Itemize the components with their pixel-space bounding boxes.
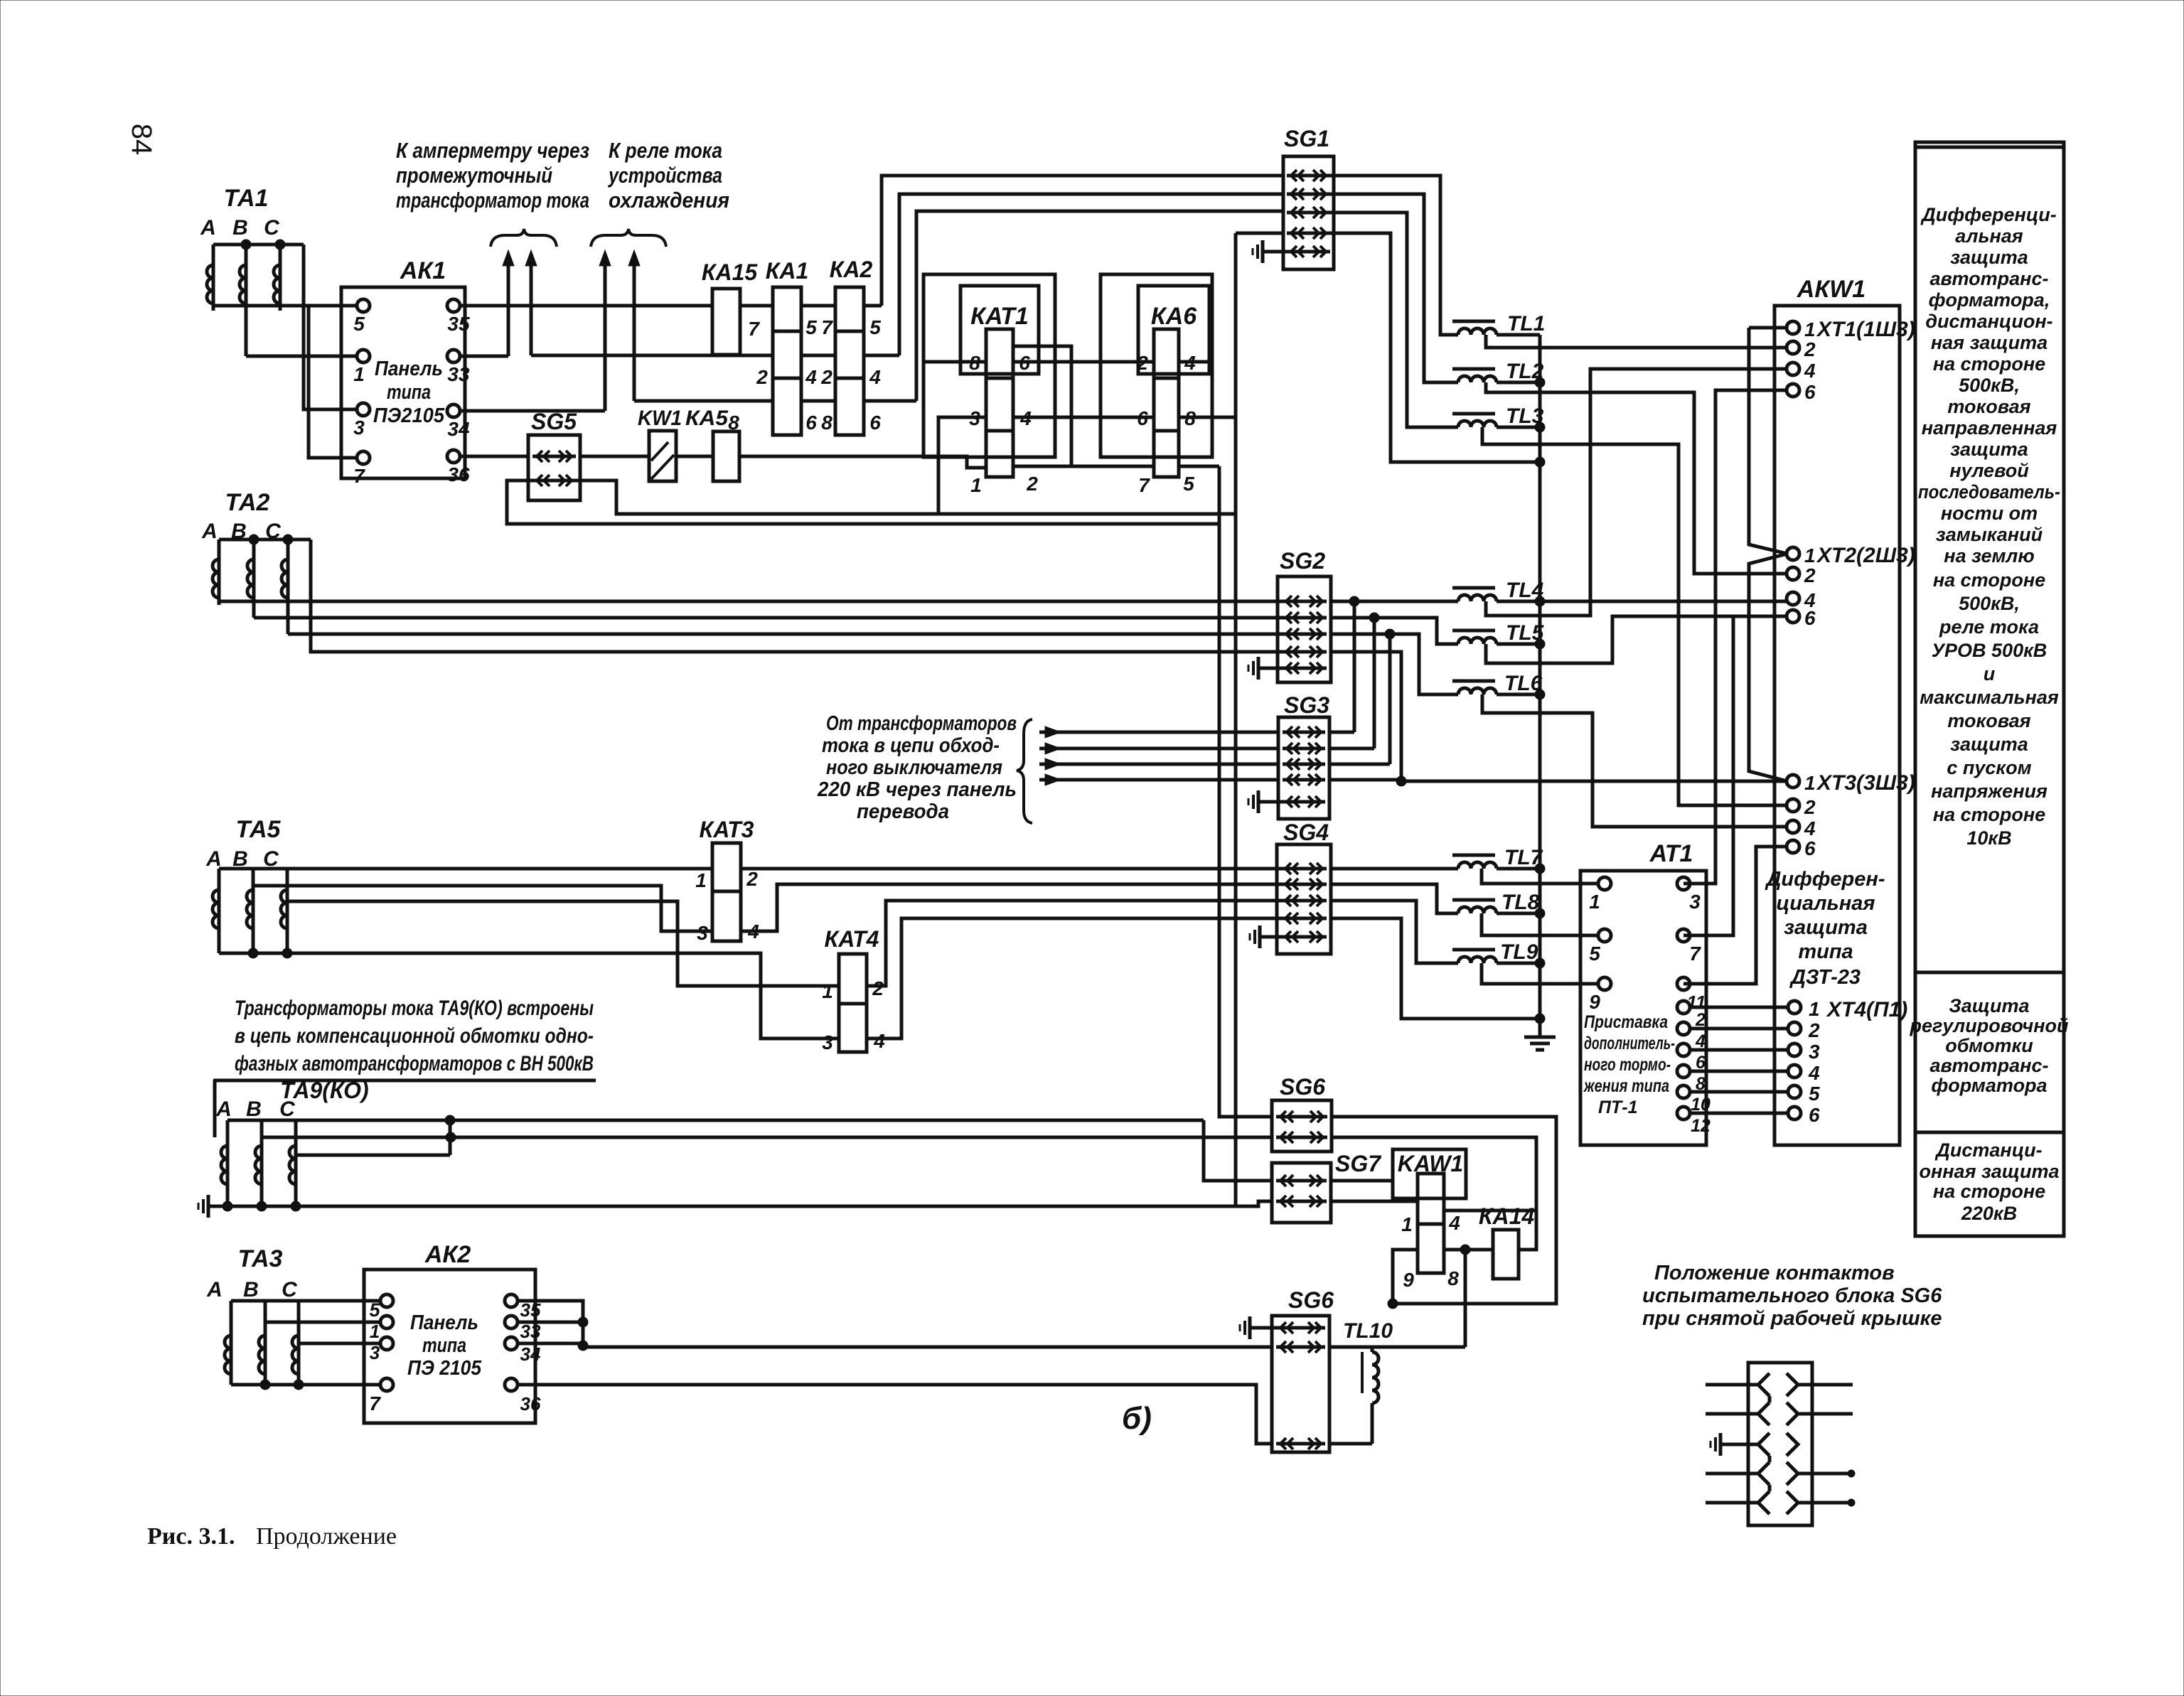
svg-text:4: 4 [1804,817,1816,839]
wire TA1-B to AK1:1 [246,355,356,358]
wire SG7 row1 out [1331,1179,1393,1183]
ground SG2 [1248,657,1283,680]
inset left link 3-4 [1768,1456,1772,1462]
svg-text:Рис. 3.1.: Рис. 3.1. [147,1523,235,1550]
svg-text:7: 7 [369,1392,381,1415]
wire TA1-A to AK1:5 [213,304,356,308]
svg-text:в цепь компенсационной обмотки: в цепь компенсационной обмотки одно- [235,1024,594,1048]
svg-text:А: А [215,1097,232,1121]
svg-text:С: С [264,216,280,240]
pin label KAT1 2 [1026,473,1038,495]
AT1 terminal 2 [1677,1001,1706,1030]
TA3 coil A [225,1301,231,1385]
inset right contact row4 [1787,1462,1798,1485]
svg-text:34: 34 [520,1343,541,1365]
brace ammeter [491,229,557,247]
svg-text:А: А [201,520,218,543]
svg-text:Дифферен-: Дифферен- [1764,868,1885,891]
svg-text:КА2: КА2 [830,257,873,282]
SG3 row5 [1283,796,1325,807]
svg-text:автотранс-: автотранс- [1930,1055,2049,1076]
svg-text:35: 35 [447,313,470,335]
wire AK2:36 long to SG6l row3 [518,1385,1272,1444]
transformer TL5 [1452,621,1545,645]
wire KA5 to KAT1:1 [739,456,986,468]
node TL9 common [1535,958,1545,968]
svg-text:тока в цепи обход-: тока в цепи обход- [822,734,1000,757]
TA2 coil C [282,540,288,634]
AT1 terminal 12 [1677,1107,1711,1136]
wire AT1:11 riser to XT3-6 [1683,847,1787,984]
relay KAT4 [825,926,879,1052]
svg-text:КА1: КА1 [766,258,809,284]
svg-text:2: 2 [1804,338,1816,360]
svg-text:500кВ,: 500кВ, [1959,593,2020,614]
wire SG1 row2 to TL2 [1328,194,1458,382]
AK2 terminal 34 [505,1337,541,1365]
svg-text:6: 6 [1137,407,1148,429]
svg-text:5: 5 [869,316,881,338]
svg-text:4: 4 [1448,1212,1460,1234]
wire V1 vertical [1219,466,1272,1117]
wire SG3 row1 out [1329,731,1354,734]
svg-text:ПЭ 2105: ПЭ 2105 [407,1357,482,1380]
TA2 coil A [213,540,219,605]
svg-text:форматора: форматора [1931,1075,2047,1096]
svg-text:3: 3 [353,417,365,439]
svg-text:КА5: КА5 [685,407,729,430]
wire V2 vertical [1234,233,1238,1206]
svg-text:6: 6 [869,412,881,434]
svg-text:циальная: циальная [1777,892,1875,915]
svg-text:4: 4 [869,366,881,388]
wire AK2:33 link [518,1321,583,1324]
relay KAT1 element [986,329,1013,477]
svg-text:КА6: КА6 [1151,303,1197,330]
wire SG4 row3 to TL9 [1331,901,1458,963]
svg-text:реле тока: реле тока [1939,616,2039,638]
AK2 terminal 33 [505,1316,541,1342]
inset right contact row3 [1787,1433,1798,1456]
SG2 row5 [1282,662,1327,674]
svg-text:6: 6 [1804,607,1816,629]
svg-text:токовая: токовая [1947,710,2030,731]
svg-text:SG6: SG6 [1280,1074,1325,1100]
terminal XT2-2 [1787,564,1816,586]
AK1 terminal 7 [353,451,370,487]
relay KAT1 label frame [960,286,1039,374]
KA6 pin 2 [1136,352,1148,374]
svg-text:4: 4 [805,366,817,388]
pin labels bottom row [728,412,881,434]
annotation SG6 position text [1642,1262,1942,1330]
transformer TL2 [1452,360,1544,383]
wire TA9-C out [296,1154,450,1157]
wire SG5 row2 left run [507,481,1219,524]
node SG2 row2 junction [1369,613,1379,623]
svg-text:устройства: устройства [607,163,722,188]
wire KAT4:2 to SG4 row3 [867,901,1284,986]
current transformer TA1 label [200,185,280,240]
wire AK1:35 row [461,304,882,308]
relay KAW1 element [1418,1174,1444,1273]
svg-text:7: 7 [353,465,365,487]
block AT1 box [1580,871,1706,1145]
svg-text:ХТ2(2Ш3): ХТ2(2Ш3) [1816,544,1915,567]
svg-text:КАТ1: КАТ1 [970,303,1029,330]
relay KW1 [638,407,682,481]
block AT1 label [1649,840,1693,867]
relay KA2 [830,257,873,435]
AK1 terminal 34 [447,404,470,440]
TA5 coil C [281,869,287,953]
svg-text:SG1: SG1 [1284,126,1329,151]
svg-text:онная защита: онная защита [1919,1161,2059,1182]
svg-text:34: 34 [447,418,470,440]
svg-text:дистанцион-: дистанцион- [1925,311,2052,332]
wire TA5-B to KAT3:3 [253,886,712,931]
terminal XT2-6 [1787,607,1816,629]
node TL4 common [1535,596,1545,606]
test block SG6 lower [1272,1287,1334,1452]
transformer TL6 [1452,672,1543,695]
AK2 terminal 7 [369,1378,393,1415]
pin labels mid row [756,366,881,388]
wire SG5 row2 right run [574,481,1236,514]
wire SG2 row1 out [1331,600,1458,603]
svg-text:6: 6 [1804,381,1816,403]
SG2 row3 [1282,628,1327,640]
wire TL6 feed [1390,634,1458,694]
svg-text:АТ1: АТ1 [1649,840,1693,867]
svg-text:ПЭ2105: ПЭ2105 [373,404,445,427]
wire V2 to SG1 row4 [1236,232,1284,235]
wire KAW1:8 to KA14 [1444,1248,1493,1252]
wire TA1 return to AK1:7 [309,306,356,458]
inset SG6 box [1748,1363,1812,1525]
svg-text:KW1: KW1 [638,407,682,430]
relay KA14 [1479,1203,1535,1279]
node TA3 neutral C [294,1380,304,1390]
SG6 lower row2 [1276,1341,1325,1353]
svg-text:220кВ: 220кВ [1961,1203,2017,1224]
relay KA6 label frame [1138,286,1209,374]
KAT3 pin 3 [697,922,708,944]
svg-text:3: 3 [697,922,708,944]
inset right contact row5 [1787,1491,1798,1514]
wire TA2-C to SG2 row3 [288,633,1284,636]
transformer TL9 [1452,940,1540,964]
terminal XT1-1 [1787,318,1816,340]
svg-text:жения типа: жения типа [1583,1076,1669,1096]
node KAW1 9 junction [1388,1299,1398,1309]
node TA5 neutral C [282,948,292,958]
wire SG2 row2 out [1331,616,1374,620]
relay KAT3 [700,817,754,941]
svg-text:КА15: КА15 [702,259,759,285]
AT1 text [1583,1012,1675,1117]
wire SG2-SG3 link1 [1353,601,1356,732]
svg-text:5: 5 [1809,1083,1820,1105]
wire TA9 junction link [449,1120,452,1155]
KAW1 pin 1 [1401,1213,1413,1235]
SG3 row4 [1283,774,1325,785]
svg-text:3: 3 [822,1031,833,1053]
svg-text:1: 1 [970,474,982,496]
SG6 lower row3 [1276,1438,1325,1449]
svg-text:SG7: SG7 [1335,1151,1382,1176]
right column divider 2 [1915,1131,2064,1134]
KA6 pin 5 [1183,473,1194,495]
svg-text:TL1: TL1 [1507,312,1545,336]
inset wire row4 left [1706,1472,1758,1476]
wire TL9 lower to AT1:9 [1482,963,1599,984]
svg-text:36: 36 [520,1393,541,1415]
svg-text:С: С [282,1278,298,1301]
svg-text:защита: защита [1950,734,2028,755]
KAT4 pin 2 [872,977,884,999]
wire AT1 to XT4-6 [1689,1112,1789,1115]
wire TL2 lower to XT2-2 [1486,382,1787,574]
node TA1 bus B [241,240,251,249]
wire SG6u row1 loop [1332,1117,1556,1304]
svg-text:SG6: SG6 [1288,1287,1334,1313]
svg-text:От трансформаторов: От трансформаторов [826,712,1017,735]
SG4 row4 [1281,913,1327,924]
KAT4 pin 1 [822,980,833,1002]
svg-text:А: А [206,1278,223,1301]
wire TA9 neutral to SG7 row2 [227,1201,1272,1206]
wire TL5 lower to XT2-6 [1486,616,1787,663]
wire SG6u row2 to KA14 [1332,1137,1536,1250]
svg-text:Панель: Панель [410,1311,478,1334]
node TA9 B junction [446,1132,456,1142]
svg-text:при снятой рабочей крышке: при снятой рабочей крышке [1642,1307,1942,1330]
terminal XT4 label [1826,998,1907,1021]
svg-text:КАТ4: КАТ4 [825,926,879,952]
svg-text:ПТ-1: ПТ-1 [1598,1097,1637,1117]
terminal XT1-2 [1787,338,1816,360]
svg-text:Защита: Защита [1949,995,2029,1016]
TA9 coil A [221,1120,227,1206]
transformer TL7 [1452,846,1543,869]
svg-text:К реле тока: К реле тока [609,138,722,163]
SG1 row5 [1287,246,1330,257]
ground TA9 [198,1195,227,1218]
ground SG6 lower [1240,1316,1278,1339]
figure caption [147,1523,397,1550]
inset wire row2 right [1798,1412,1853,1416]
svg-text:2: 2 [756,366,768,388]
svg-text:4: 4 [1808,1062,1820,1084]
SG2 row2 [1282,612,1327,623]
wire cooling return row [634,399,916,403]
svg-text:4: 4 [1804,360,1816,382]
SG7 row1 [1276,1175,1327,1186]
node TL5 common [1535,639,1545,649]
wire SG1 row4 to common [1328,233,1540,462]
wire TA3 bus [231,1299,380,1303]
terminal XT3-4 [1787,817,1816,839]
test block SG6 upper [1272,1074,1332,1152]
terminal XT4-2 [1788,1019,1820,1041]
svg-text:5: 5 [353,313,365,335]
svg-text:1: 1 [1589,891,1600,913]
svg-text:А: А [200,216,216,240]
chain XT2-XT3 [1749,554,1787,781]
wire riser to SG1 row1 [882,176,1284,306]
inset left link 4-5 [1768,1485,1772,1491]
relay KA1 [766,258,809,435]
wire TL3 lower to XT3-2 [1482,427,1787,805]
page number 84 [126,124,157,156]
wire SG1 row1 to TL1 [1328,176,1458,335]
wire KA6:8 to V2 [1179,416,1236,419]
svg-text:36: 36 [447,463,470,485]
svg-text:альная: альная [1955,225,2023,247]
svg-text:последователь-: последователь- [1918,481,2060,503]
wire SG2 row4 down [1331,652,1401,781]
AK1 terminal 33 [447,350,470,385]
panel AK2 box [364,1270,535,1423]
svg-text:на землю: на землю [1944,545,2034,567]
svg-text:SG5: SG5 [531,409,577,434]
panel AK1 box [341,287,465,478]
ground SG3 [1248,790,1284,813]
AK2 type text [407,1311,482,1380]
svg-text:защита: защита [1950,439,2028,460]
svg-text:УРОВ 500кВ: УРОВ 500кВ [1932,640,2047,661]
svg-text:максимальная: максимальная [1920,687,2059,708]
svg-text:6: 6 [1804,837,1816,859]
node TA5 neutral B [248,948,258,958]
node XT3 bus junction [1396,776,1406,786]
annotation TA9 underline [213,1080,596,1137]
TA9 coil B [255,1120,262,1206]
AT1 terminal 3 [1677,877,1701,913]
svg-text:ТА2: ТА2 [225,489,270,516]
svg-text:охлаждения: охлаждения [609,188,729,213]
KAW1 pin 4 [1448,1212,1460,1234]
svg-text:3: 3 [370,1342,380,1363]
svg-text:с пуском: с пуском [1947,757,2031,778]
wire TA9 bus [227,1119,450,1122]
terminal XT4-1 [1788,998,1820,1020]
svg-text:В: В [246,1097,262,1121]
node common 650 [1535,457,1545,467]
KA6 pin 7 [1138,474,1150,496]
SG4 row5 [1281,931,1327,943]
AK2 terminal 5 [369,1294,393,1321]
pin label KAT1 1 [970,474,982,496]
svg-text:1: 1 [370,1321,380,1342]
svg-text:АКW1: АКW1 [1797,276,1865,303]
svg-text:1: 1 [1401,1213,1413,1235]
svg-text:33: 33 [447,363,470,385]
node TL7 common [1535,864,1545,874]
terminal XT2 label [1816,544,1915,567]
svg-text:обмотки: обмотки [1945,1035,2033,1056]
terminal XT4-4 [1788,1062,1820,1084]
wire TA2-A to SG2 row1 [219,600,1284,603]
AK1 terminal 3 [353,403,370,439]
terminal XT2-4 [1787,589,1816,611]
svg-text:220 кВ через панель: 220 кВ через панель [817,778,1017,801]
node common 1433 [1535,1014,1545,1024]
wire SG3 row2 out [1329,747,1374,751]
svg-text:4: 4 [873,1030,885,1052]
svg-text:7: 7 [748,318,760,340]
svg-text:на стороне: на стороне [1933,353,2045,375]
TA1 coil B [240,245,246,356]
wire AT1 to XT4-4 [1689,1070,1789,1073]
svg-text:автотранс-: автотранс- [1930,268,2049,289]
svg-text:форматора,: форматора, [1929,289,2050,311]
wire AT1:7 riser to XT2-6 [1683,616,1733,935]
right column cell3 text [1919,1139,2059,1224]
terminal XT4-5 [1788,1083,1820,1105]
arrow cooling return [628,250,640,401]
svg-text:перевода: перевода [857,800,949,823]
AK1 terminal 36 [447,450,470,485]
test block SG4 [1277,820,1331,954]
AK1 type text [373,358,445,427]
wire TA3-B to AK2:1 [265,1321,380,1324]
node TA9 neutral C [291,1201,301,1211]
relay KAW1 label frame [1393,1149,1466,1198]
svg-text:КАТ3: КАТ3 [700,817,754,842]
pin labels top row [805,316,881,338]
wire TA2 return to SG2 row4 [311,540,1284,652]
svg-text:б): б) [1122,1401,1152,1436]
AT1 terminal 9 [1589,977,1611,1013]
wire SG3 row4 to XT3-1 [1329,780,1787,781]
node TA9 neutral B [257,1201,267,1211]
wire SG5 to KW1 [580,455,649,458]
svg-text:SG4: SG4 [1283,820,1329,845]
svg-text:токовая: токовая [1947,396,2030,417]
svg-text:1: 1 [1809,998,1820,1020]
brace bypass [1017,719,1032,823]
svg-text:ХТ1(1Ш3): ХТ1(1Ш3) [1816,318,1915,341]
SG4 row1 [1281,863,1327,874]
right column cell2 text [1909,995,2069,1096]
svg-text:КА14: КА14 [1479,1203,1535,1229]
node AK2 junction 33 [578,1317,588,1327]
wire TA2-B to SG2 row2 [254,616,1284,620]
AK1 terminal 5 [353,299,370,335]
node AK2 junction 34 [578,1341,588,1351]
svg-text:5: 5 [1183,473,1194,495]
KA6 pin 6 [1137,407,1148,429]
svg-text:7: 7 [1138,474,1150,496]
wire AK1:34 to cooling arrow [461,409,605,413]
node TA1 bus C [275,240,285,249]
brace cooling [591,229,666,247]
svg-text:нулевой: нулевой [1949,460,2029,481]
svg-text:5: 5 [369,1299,380,1321]
node KA14 junction [1460,1245,1470,1255]
KA6 pin 4 [1184,352,1196,374]
svg-text:трансформатор тока: трансформатор тока [396,188,589,213]
annotation to cooling relay [607,138,729,213]
wire AT1 to XT4-3 [1689,1048,1789,1052]
SG1 row4 [1287,227,1330,239]
wire ammeter return row [531,354,899,358]
terminal XT1-6 [1787,381,1816,403]
transformer TL1 [1452,312,1545,336]
label KA15 pin 7 [748,318,760,340]
